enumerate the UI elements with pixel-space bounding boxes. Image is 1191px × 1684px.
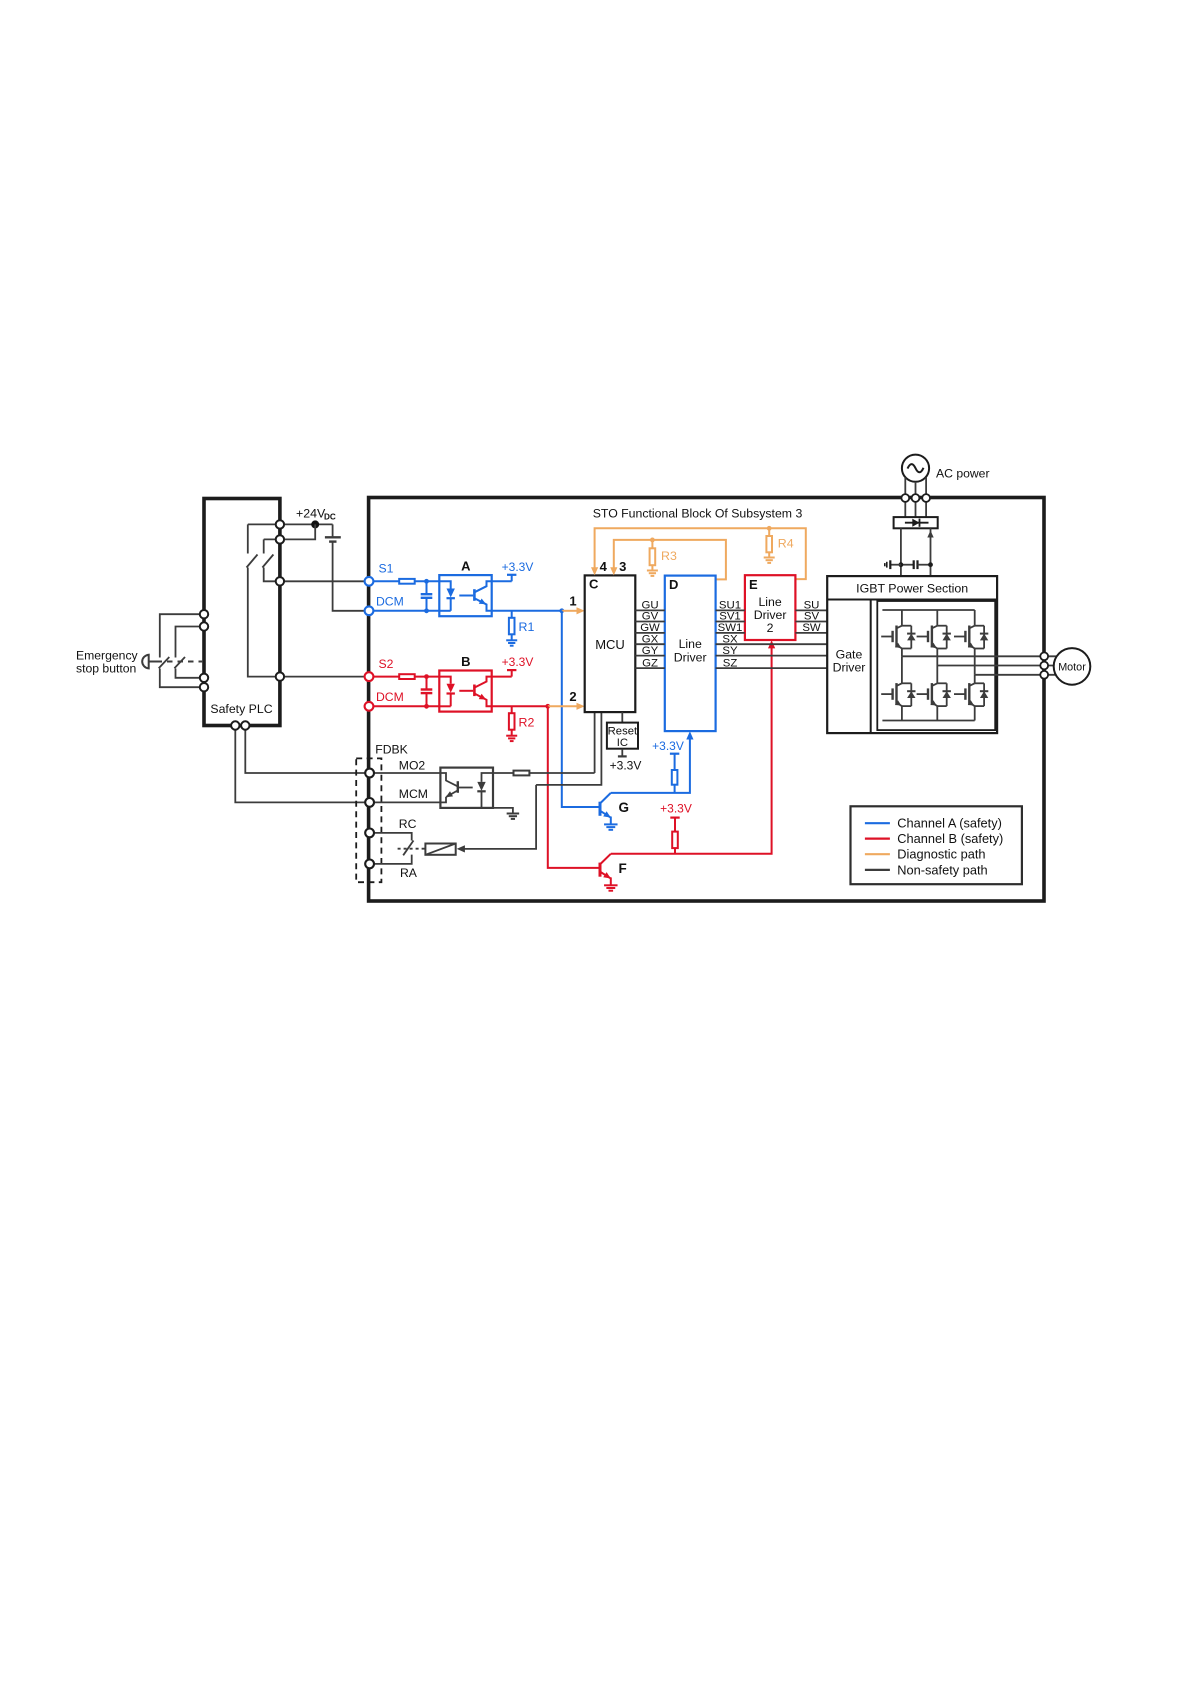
svg-text:Motor: Motor — [1058, 661, 1086, 673]
optocoupler B box — [439, 671, 491, 712]
IGBT Q5 (lower) — [917, 666, 951, 721]
gate driver divider — [870, 600, 872, 734]
wire D pin SZ — [716, 667, 828, 669]
FDBK optocoupler box — [440, 768, 493, 808]
svg-text:AC power: AC power — [936, 467, 990, 481]
rectifier box — [894, 517, 938, 528]
node RA — [365, 860, 374, 869]
ground below R1 — [506, 639, 517, 641]
resistor R1 — [511, 611, 513, 618]
node S2 junction — [424, 674, 429, 679]
relay contact RC wiring — [370, 833, 412, 841]
capacitor C-B between S2 and DCM — [426, 677, 428, 690]
svg-text:RA: RA — [400, 866, 418, 880]
wire MCU pin GV — [635, 621, 665, 623]
wire S1 input — [369, 580, 399, 582]
relay actuator dashed line — [398, 848, 426, 850]
svg-text:C: C — [589, 577, 599, 592]
resistor R4 — [768, 528, 770, 536]
svg-text:B: B — [461, 654, 470, 669]
FDBK dashed box — [356, 758, 381, 882]
rectifier diode — [905, 522, 929, 524]
svg-text:Non-safety path: Non-safety path — [897, 862, 987, 877]
wire MCU pin GY — [635, 655, 665, 657]
svg-text:GY: GY — [642, 645, 659, 657]
PLC contact B blade — [262, 555, 273, 568]
wire D pin SY — [716, 655, 828, 657]
svg-text:SV: SV — [804, 611, 820, 623]
emergency stop actuator dashed line — [157, 661, 204, 663]
svg-text:MO2: MO2 — [399, 758, 426, 772]
ground below F — [604, 884, 618, 886]
wire battery to DCM — [333, 542, 369, 611]
svg-text:GW: GW — [640, 622, 660, 634]
wire G collector to line driver D — [611, 738, 690, 793]
legend non-safety — [865, 869, 890, 871]
wire DCM input — [369, 610, 439, 612]
FDBK opto phototransistor — [440, 773, 457, 786]
resistor on S1 — [399, 579, 415, 584]
svg-text:SX: SX — [722, 633, 738, 645]
resistor pull-up A — [672, 770, 678, 785]
transistor G — [599, 802, 602, 816]
svg-text:R3: R3 — [661, 549, 677, 563]
svg-text:GV: GV — [642, 611, 659, 623]
svg-text:Emergency: Emergency — [76, 649, 139, 663]
IGBT Q2 (upper) — [917, 610, 951, 666]
svg-text:Channel B (safety): Channel B (safety) — [897, 831, 1003, 846]
node R3 junction — [650, 538, 655, 543]
svg-text:G: G — [619, 800, 630, 815]
svg-text:R2: R2 — [519, 716, 535, 730]
wire E pin SW — [795, 632, 827, 634]
node R4 junction — [767, 526, 772, 531]
svg-text:R1: R1 — [519, 620, 535, 634]
relay contact blade — [403, 841, 413, 856]
svg-text:1: 1 — [569, 594, 576, 609]
node RC — [365, 829, 374, 838]
svg-text:RC: RC — [399, 817, 417, 831]
IGBT Q6 (lower) — [954, 675, 988, 721]
DC bus wires — [900, 528, 902, 575]
ES contact 2 blade — [174, 657, 185, 668]
legend diagnostic — [865, 853, 890, 855]
wire MCU pin GU — [635, 609, 665, 611]
resistor on MO2 line — [493, 772, 514, 774]
wire S2 input — [369, 676, 399, 678]
Safety PLC box — [204, 499, 280, 726]
MCU box C — [585, 575, 636, 712]
wire D pin SX — [716, 643, 828, 645]
arrow into MCU pin 1 — [562, 610, 578, 612]
opto B phototransistor — [459, 690, 473, 692]
phase output V — [937, 665, 1053, 667]
svg-text:SW: SW — [802, 622, 821, 634]
svg-text:Safety PLC: Safety PLC — [210, 702, 272, 716]
svg-text:GZ: GZ — [642, 657, 658, 669]
DC- bus — [882, 720, 974, 722]
+24VDC wire from PLC — [248, 523, 333, 525]
motor — [1054, 648, 1091, 685]
wire F collector to line driver E — [611, 646, 772, 853]
wire MCU pin GX — [635, 643, 665, 645]
line driver D box — [665, 576, 716, 732]
legend channel A — [865, 822, 890, 824]
relay coil box — [425, 844, 455, 855]
svg-text:IC: IC — [617, 737, 628, 749]
svg-text:3: 3 — [619, 559, 626, 574]
svg-text:+3.3V: +3.3V — [502, 655, 534, 669]
node DCM junction — [424, 608, 429, 613]
wire MCM to opto — [370, 801, 441, 803]
phase output U — [902, 655, 1056, 657]
svg-text:+3.3V: +3.3V — [652, 739, 684, 753]
svg-text:GX: GX — [642, 633, 659, 645]
wire D pin SV1 — [716, 621, 745, 623]
ES contact 1 wiring — [160, 614, 204, 657]
wire opto A emitter output — [492, 610, 562, 612]
svg-text:stop button: stop button — [76, 662, 136, 676]
svg-text:+3.3V: +3.3V — [610, 758, 642, 772]
wire opto A collector to +3.3V — [492, 580, 512, 582]
node MCM — [365, 798, 374, 807]
node +24VDC — [311, 520, 319, 528]
svg-text:2: 2 — [767, 621, 774, 635]
AC power source circle — [902, 455, 929, 482]
transistor F — [599, 863, 602, 877]
wire MCU pin GZ — [635, 667, 665, 669]
wire MO2 row to MCU — [529, 772, 594, 774]
opto A phototransistor — [459, 595, 473, 597]
svg-text:FDBK: FDBK — [375, 742, 408, 756]
svg-text:DCM: DCM — [376, 594, 404, 608]
relay contact RA wiring — [370, 855, 412, 864]
svg-text:MCM: MCM — [399, 787, 428, 801]
drive subsystem outer box — [369, 498, 1044, 902]
svg-text:A: A — [461, 558, 471, 573]
arrow to relay coil — [457, 845, 465, 852]
svg-text:2: 2 — [569, 689, 576, 704]
wire MCU pin GW — [635, 632, 665, 634]
svg-text:S1: S1 — [379, 562, 394, 576]
svg-text:MCU: MCU — [595, 637, 625, 652]
IGBT power section box — [827, 576, 997, 733]
diagnostic loop to pin 3 — [614, 540, 726, 580]
phase output W — [975, 674, 1056, 676]
wire MCU to relay driver row — [536, 712, 601, 785]
+3.3V supply A — [507, 574, 516, 576]
PLC contact B wiring (to S1) — [263, 539, 265, 553]
wire PLC to MO2 — [245, 726, 369, 774]
diagnostic loop to pin 4 — [595, 528, 806, 579]
resistor on S2 — [399, 674, 415, 679]
svg-text:Channel A (safety): Channel A (safety) — [897, 816, 1002, 831]
node MO2 — [365, 769, 374, 778]
node S1 junction — [424, 579, 429, 584]
svg-text:F: F — [619, 861, 627, 876]
ES contact 1 blade — [159, 657, 170, 668]
AC power wires — [904, 478, 906, 518]
legend box — [851, 806, 1022, 884]
svg-text:+3.3V: +3.3V — [502, 560, 534, 574]
ES contact 2 wiring — [176, 627, 205, 658]
svg-text:Driver: Driver — [754, 608, 787, 622]
IGBT Q4 (lower) — [881, 656, 915, 720]
battery cell symbol — [332, 524, 334, 537]
node DCM (B) — [365, 702, 374, 711]
svg-text:SY: SY — [722, 645, 738, 657]
svg-text:Diagnostic path: Diagnostic path — [897, 847, 985, 862]
svg-text:D: D — [669, 577, 678, 592]
line driver 2 E box — [745, 575, 796, 640]
ground below R2 — [506, 735, 517, 737]
wire opto B collector to +3.3V — [492, 676, 512, 678]
wire opto B emitter output — [492, 705, 548, 707]
emergency stop button head — [142, 655, 149, 669]
IGBT bridge inner box — [877, 601, 995, 730]
wire MCU to MO2 row — [594, 712, 596, 773]
resistor R2 — [511, 706, 513, 713]
svg-text:R4: R4 — [778, 537, 794, 551]
resistor pull-up B — [672, 832, 678, 849]
IGBT section header line — [827, 599, 997, 601]
svg-text:SW1: SW1 — [718, 622, 743, 634]
capacitor C-A between S1 and DCM — [426, 581, 428, 594]
node S1 — [365, 577, 374, 586]
svg-text:4: 4 — [600, 559, 608, 574]
svg-text:E: E — [749, 577, 758, 592]
svg-text:DCM: DCM — [376, 690, 404, 704]
svg-text:SZ: SZ — [723, 657, 738, 669]
DC bus arrow — [927, 531, 933, 538]
svg-text:+3.3V: +3.3V — [660, 802, 692, 816]
svg-text:S2: S2 — [379, 657, 394, 671]
svg-text:STO Functional Block Of Subsys: STO Functional Block Of Subsystem 3 — [593, 507, 803, 521]
node DCM2 junction — [424, 704, 429, 709]
optocoupler A box — [439, 575, 491, 616]
opto B LED — [439, 677, 450, 684]
FDBK opto LED — [482, 773, 494, 782]
wire +24V to contact B — [264, 524, 316, 539]
legend channel B — [865, 837, 890, 839]
AC input terminals on border — [901, 494, 909, 502]
IGBT Q3 (upper) — [954, 610, 988, 675]
node S2 — [365, 672, 374, 681]
PLC edge nodes — [276, 520, 284, 528]
output terminals on border — [1040, 652, 1048, 660]
svg-text:IGBT Power Section: IGBT Power Section — [856, 582, 968, 596]
wire D pin SW1 — [716, 632, 745, 634]
svg-text:Reset: Reset — [608, 726, 638, 738]
EMI capacitor to chassis — [891, 564, 901, 566]
DC+ bus — [882, 609, 974, 611]
wire PLC to MCM — [235, 726, 369, 803]
node channel B junction — [545, 704, 550, 709]
resistor R3 — [651, 540, 653, 548]
svg-text:Line: Line — [679, 637, 702, 651]
svg-text:SV1: SV1 — [719, 611, 741, 623]
opto A LED — [439, 581, 450, 588]
node DCM (A) — [365, 606, 374, 615]
IGBT Q1 (upper) — [881, 610, 915, 656]
wire relay driver down — [463, 785, 536, 849]
wire channel B down to transistor F — [548, 706, 599, 868]
wire E pin SV — [795, 621, 827, 623]
svg-text:+24V: +24V — [296, 507, 326, 521]
node channel A junction — [559, 608, 564, 613]
wire DCM2 input — [369, 705, 439, 707]
wire E pin SU — [795, 609, 827, 611]
ground below R4 — [764, 557, 775, 559]
Reset IC box — [621, 712, 623, 723]
svg-text:DC: DC — [324, 513, 336, 522]
wire channel A down to transistor G — [562, 611, 599, 807]
arrow into MCU pin 2 — [548, 705, 578, 707]
ground below G — [604, 823, 618, 825]
ground below R3 — [647, 570, 658, 572]
svg-text:Driver: Driver — [833, 661, 866, 675]
+3.3V supply B — [507, 669, 516, 671]
wire D pin SU1 — [716, 609, 745, 611]
DC link capacitor — [901, 564, 914, 566]
svg-text:Driver: Driver — [674, 651, 707, 665]
svg-text:Gate: Gate — [836, 647, 863, 661]
PLC contact A wiring (to S2) — [247, 524, 249, 553]
PLC contact A blade — [247, 555, 258, 568]
svg-text:Line: Line — [758, 595, 781, 609]
ground below FDBK opto — [507, 813, 520, 815]
wire MO2 to opto — [370, 772, 441, 774]
+3.3V at Reset IC — [621, 749, 623, 757]
